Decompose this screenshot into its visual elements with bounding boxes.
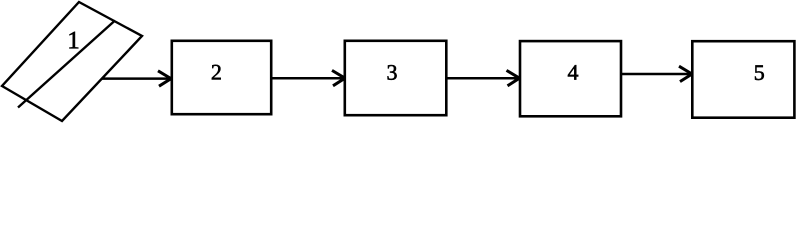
label 2 xyxy=(212,65,221,80)
label 4 xyxy=(568,65,578,79)
block 4 box xyxy=(520,41,621,116)
wire arrow block3 to block4 xyxy=(446,70,520,85)
block 5 box xyxy=(692,41,794,118)
label 5 xyxy=(755,65,764,80)
block 2 box xyxy=(172,41,271,114)
label 1 xyxy=(69,32,78,49)
block 3 box xyxy=(345,41,447,115)
wire arrow block4 to block5 xyxy=(621,66,693,81)
wire arrow block2 to block3 xyxy=(272,70,346,85)
tilted block 1 (rotated rectangle) xyxy=(2,2,142,121)
wire arrow block1 to block2 xyxy=(102,71,171,86)
label 3 xyxy=(388,65,397,80)
inner divider line of block 1 xyxy=(18,21,115,108)
